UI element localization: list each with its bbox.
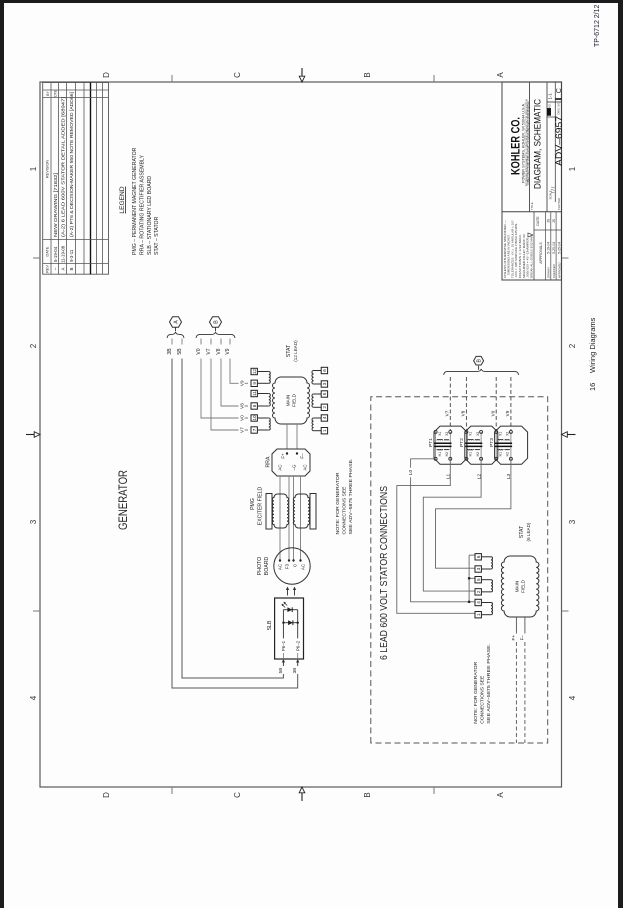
svg-text:9: 9 [252, 382, 257, 385]
stator coil 3-6 (6-lead) [491, 557, 493, 569]
svg-text:DTE: DTE [54, 89, 58, 97]
svg-text:F–: F– [299, 453, 304, 459]
svg-text:GENERATOR: GENERATOR [116, 470, 130, 530]
black size box [547, 108, 551, 116]
svg-text:PMG – PERMANENT MAGNET GENERAT: PMG – PERMANENT MAGNET GENERATOR [132, 147, 138, 255]
terminal 3 [321, 381, 327, 387]
svg-text:4: 4 [29, 695, 38, 700]
svg-text:EXCITER FIELD: EXCITER FIELD [258, 486, 264, 525]
svg-text:AC: AC [278, 564, 283, 570]
svg-text:PLOTTED: PLOTTED [557, 198, 561, 210]
svg-text:REV: REV [46, 265, 50, 273]
terminal 12 [251, 368, 257, 374]
svg-text:1: 1 [568, 166, 577, 171]
transformer PT1 [434, 426, 467, 464]
RRA F- terminal [296, 452, 298, 454]
centering mark bottom edge [567, 434, 576, 436]
RRA box [272, 449, 310, 476]
brace 6-lead [444, 369, 519, 375]
terminal 11 [251, 390, 257, 396]
svg-text:PT2: PT2 [459, 438, 465, 447]
node B right [474, 356, 484, 365]
wire V9 run [230, 359, 248, 384]
svg-text:6: 6 [322, 369, 327, 372]
svg-text:(A-2) 6 LEAD 600V STATOR DETAI: (A-2) 6 LEAD 600V STATOR DETAIL ADDED [6… [61, 97, 66, 237]
svg-text:C: C [233, 792, 242, 798]
svg-text:DATE: DATE [536, 216, 540, 226]
svg-text:F3: F3 [284, 563, 289, 569]
svg-text:DWG. NO.: DWG. NO. [556, 102, 560, 115]
wire V8 stub/label [220, 339, 222, 345]
svg-text:5-25-04: 5-25-04 [552, 242, 556, 254]
terminal 4 (6-lead) [475, 599, 481, 605]
svg-text:SEE ADV–5875 THREE PHASE.: SEE ADV–5875 THREE PHASE. [486, 644, 492, 724]
scan edge strip right [618, 0, 623, 908]
svg-text:STAT: STAT [286, 344, 292, 357]
svg-text:X1: X1 [498, 432, 502, 436]
svg-text:H2: H2 [506, 452, 510, 456]
svg-text:SEE ADV–5875 THREE PHASE.: SEE ADV–5875 THREE PHASE. [348, 459, 354, 535]
svg-text:V7: V7 [445, 410, 450, 416]
svg-text:AC: AC [303, 464, 308, 470]
svg-text:L1: L1 [446, 474, 452, 480]
svg-text:C: C [556, 88, 563, 93]
PMG exciter coil upper [272, 494, 288, 528]
svg-text:MAIN: MAIN [515, 581, 520, 592]
svg-text:REVISION: REVISION [46, 160, 50, 178]
svg-text:5-19-04: 5-19-04 [547, 242, 551, 254]
stator coil 1-4 (6-lead) [491, 603, 493, 615]
wire F3 [288, 476, 290, 561]
wire V9 stub/label [229, 339, 231, 345]
svg-text:ADV–6957: ADV–6957 [554, 116, 565, 166]
svg-text:A: A [496, 72, 505, 78]
svg-text:B: B [213, 320, 219, 324]
main field 12-lead [273, 377, 310, 424]
svg-text:CONNECTIONS SEE: CONNECTIONS SEE [480, 676, 486, 724]
svg-text:5B: 5B [278, 668, 283, 674]
svg-text:5-19-04: 5-19-04 [53, 246, 58, 262]
svg-text:3: 3 [29, 519, 38, 524]
svg-text:3: 3 [322, 382, 327, 385]
photo board circle [274, 548, 310, 584]
svg-text:V0: V0 [196, 348, 202, 354]
wire L1 [397, 459, 475, 614]
terminal 1 (6-lead) [475, 612, 481, 618]
svg-text:AC: AC [278, 464, 283, 470]
junction L0/bus [468, 601, 471, 604]
svg-text:1: 1 [476, 613, 481, 616]
main field 6-lead [501, 556, 539, 617]
6-lead stator coils [481, 614, 491, 616]
svg-text:A: A [61, 267, 66, 270]
svg-text:B: B [69, 267, 74, 270]
svg-text:H2: H2 [445, 452, 449, 456]
svg-text:PMG: PMG [250, 498, 256, 510]
12-lead stator upper winding stubs and coils [257, 429, 268, 431]
svg-text:BY: BY [46, 91, 50, 96]
node A [170, 317, 182, 327]
svg-text:STAT: STAT [519, 525, 525, 538]
terminal 7 [251, 427, 257, 433]
SLB LED branch [283, 609, 297, 611]
svg-text:PT1: PT1 [428, 438, 434, 447]
neutral bus L0 to terminals 6,5,4 [468, 555, 470, 602]
svg-text:4: 4 [568, 695, 577, 700]
arrow to photo board 1 [286, 587, 289, 596]
svg-text:AC: AC [300, 564, 305, 570]
diode [288, 620, 293, 625]
svg-text:6 LEAD 600 VOLT STATOR CONNECT: 6 LEAD 600 VOLT STATOR CONNECTIONS [379, 486, 390, 660]
PMG magnet bar lower [310, 494, 316, 530]
svg-text:POWER SYSTEMS, KOHLER, WI 530: POWER SYSTEMS, KOHLER, WI 53044 U.S.A. [522, 103, 526, 183]
dashed wire V8 [465, 377, 467, 430]
wire L3 [436, 459, 511, 568]
svg-text:–: – [53, 267, 58, 270]
node B [210, 317, 222, 327]
svg-text:X2: X2 [445, 432, 449, 436]
svg-text:BOARD: BOARD [264, 557, 270, 576]
svg-text:V8: V8 [240, 403, 245, 409]
F- dashed [524, 617, 526, 634]
V7 label at terminal 7 [239, 425, 245, 434]
svg-text:8: 8 [252, 404, 257, 407]
dashed wire V7 [449, 377, 451, 430]
svg-text:RRA – ROTATING RECTIFIER ASSEM: RRA – ROTATING RECTIFIER ASSEMBLY [139, 154, 145, 255]
svg-text:Wiring Diagrams: Wiring Diagrams [588, 317, 597, 373]
wire V8 run [221, 359, 248, 407]
svg-text:V7: V7 [240, 427, 245, 433]
svg-text:11-19-08: 11-19-08 [61, 245, 66, 263]
stator coil 2-5 (6-lead) [491, 580, 493, 592]
F+ dashed [515, 617, 517, 634]
terminal 5 (6-lead) [475, 577, 481, 583]
stator coil 3-6 [312, 371, 314, 385]
scan edge strip top [0, 0, 623, 3]
svg-text:TITLE: TITLE [530, 202, 534, 210]
svg-text:F+: F+ [511, 635, 516, 641]
svg-text:H1: H1 [438, 452, 442, 456]
svg-text:MAIN: MAIN [286, 395, 291, 406]
svg-text:6: 6 [476, 555, 481, 558]
wire V7 run [211, 359, 248, 431]
svg-text:5: 5 [476, 578, 481, 581]
svg-text:V9: V9 [505, 410, 510, 416]
svg-text:P6–2: P6–2 [296, 640, 301, 651]
wire 0 [293, 476, 295, 561]
terminal 8 [251, 403, 257, 409]
wire 3B run [172, 359, 298, 689]
svg-text:12: 12 [252, 369, 257, 375]
PMG exciter coil lower [293, 494, 309, 528]
svg-text:STAT – STATOR: STAT – STATOR [154, 216, 160, 255]
terminal 10 [251, 415, 257, 421]
V8 label at terminal 8 [239, 401, 245, 410]
svg-text:DIAGRAM, SCHEMATIC: DIAGRAM, SCHEMATIC [532, 98, 542, 189]
centering mark top edge [26, 434, 35, 436]
transformer PT3 [495, 426, 528, 464]
wire AC lower [300, 476, 302, 561]
wire 5B stub/label [181, 339, 183, 345]
svg-text:FIELD: FIELD [521, 579, 526, 593]
terminal 9 [251, 380, 257, 386]
svg-text:V9: V9 [240, 380, 245, 386]
svg-text:2: 2 [568, 343, 577, 348]
title block outer [502, 82, 562, 280]
svg-text:5: 5 [322, 392, 327, 395]
wire L0 [411, 459, 470, 602]
svg-text:5B: 5B [177, 348, 183, 355]
arrow to photo board 2 [293, 587, 296, 596]
svg-text:0: 0 [292, 564, 297, 567]
svg-text:F–: F– [520, 635, 525, 641]
terminal 5 [321, 391, 327, 397]
svg-text:F+: F+ [280, 453, 285, 459]
svg-text:A: A [496, 792, 505, 798]
revision table [43, 83, 109, 275]
brace B [196, 332, 235, 338]
drawing border frame [40, 82, 562, 787]
LED arrows [282, 605, 285, 608]
V0 label at terminal 10 [239, 413, 245, 422]
svg-text:NOTE: FOR GENERATOR: NOTE: FOR GENERATOR [335, 472, 341, 535]
svg-text:V8: V8 [216, 348, 222, 354]
terminal 4 [321, 415, 327, 421]
svg-text:4: 4 [476, 601, 481, 604]
svg-text:(6 LEAD): (6 LEAD) [526, 522, 531, 541]
svg-text:2: 2 [476, 590, 481, 593]
6-lead dashed enclosure [371, 397, 548, 743]
svg-text:JS: JS [552, 218, 556, 223]
SLB diode branch [283, 622, 297, 624]
stator coil 1-4 [312, 418, 314, 431]
terminal 6 [321, 367, 327, 373]
svg-text:CONNECTION WITH OUR WORK. ALL: CONNECTION WITH OUR WORK. ALL RIGHTS OF … [527, 101, 530, 185]
svg-text:1: 1 [29, 166, 38, 171]
LED diode [287, 607, 292, 612]
wire V0 run [201, 359, 248, 419]
approvals table [534, 229, 562, 231]
svg-text:A: A [173, 320, 179, 324]
svg-text:V9: V9 [225, 348, 231, 354]
svg-text:JS: JS [547, 218, 551, 223]
svg-text:16: 16 [588, 383, 597, 391]
terminal 1 [321, 428, 327, 434]
svg-text:P6–1: P6–1 [281, 640, 286, 651]
SLB stationary LED board [275, 598, 304, 659]
stator coil 9-12 [269, 371, 270, 383]
V9 label at terminal 9 [239, 379, 245, 388]
title block divisions [502, 211, 562, 213]
svg-text:2: 2 [322, 406, 327, 409]
svg-text:3B: 3B [292, 668, 297, 674]
12-lead stator lower coils [314, 430, 322, 432]
svg-text:H1: H1 [498, 452, 502, 456]
svg-text:10: 10 [252, 415, 257, 421]
centering mark right edge [301, 68, 303, 77]
svg-text:3B: 3B [167, 348, 173, 355]
SLB internal wires [282, 653, 284, 659]
svg-text:B: B [477, 358, 483, 362]
svg-text:1-1: 1-1 [548, 93, 553, 100]
svg-text:D: D [102, 72, 111, 78]
terminal 2 (6-lead) [475, 589, 481, 595]
scan edge strip left [0, 0, 4, 908]
svg-text:4: 4 [322, 416, 327, 419]
terminal 2 [321, 404, 327, 410]
stator coil 2-5 [312, 394, 314, 407]
stator coil 8-11 [269, 394, 271, 407]
svg-text:7: 7 [252, 428, 257, 431]
svg-text:L2: L2 [476, 474, 482, 480]
photo board terminal dots [279, 559, 281, 561]
svg-text:B: B [363, 72, 372, 77]
svg-text:H2: H2 [476, 452, 480, 456]
svg-text:–G: –G [292, 464, 297, 470]
svg-text:11: 11 [252, 391, 257, 396]
svg-text:FIELD: FIELD [292, 393, 297, 407]
wire 5B run [182, 359, 283, 679]
svg-text:X1: X1 [469, 432, 473, 436]
svg-text:B: B [363, 792, 372, 797]
PMG magnet bar upper [266, 494, 272, 530]
svg-text:V0: V0 [240, 415, 245, 421]
svg-text:BREAK ALL EDGES 1/32 MAX.: BREAK ALL EDGES 1/32 MAX. [529, 234, 533, 278]
svg-text:DATE: DATE [46, 246, 50, 256]
svg-text:NOTE: FOR GENERATOR: NOTE: FOR GENERATOR [473, 661, 479, 724]
svg-text:(A-2) PT6 & DECISION-MAKER 550: (A-2) PT6 & DECISION-MAKER 550 NOTE REMO… [69, 92, 74, 237]
svg-text:DRAWN: DRAWN [547, 268, 551, 278]
brace A [167, 332, 184, 338]
svg-text:3: 3 [476, 567, 481, 570]
wire V0 stub/label [200, 339, 202, 345]
svg-text:5-25-04: 5-25-04 [557, 242, 561, 254]
wire V7 stub/label [210, 339, 212, 345]
RRA F+ terminal [286, 452, 288, 454]
centering mark left edge [301, 793, 303, 802]
svg-text:LEGEND: LEGEND [119, 186, 126, 213]
svg-text:L0: L0 [408, 470, 414, 476]
wire AC upper [279, 476, 281, 561]
svg-text:V8: V8 [461, 410, 466, 416]
svg-text:1: 1 [322, 429, 327, 432]
junction bus/5 [468, 577, 471, 580]
svg-text:/ / /: / / / [550, 186, 555, 193]
svg-text:D: D [102, 792, 111, 798]
terminal 6 (6-lead) [475, 554, 481, 560]
svg-text:X1: X1 [438, 432, 442, 436]
svg-text:X2: X2 [506, 432, 510, 436]
svg-text:APPROVALS: APPROVALS [539, 242, 543, 264]
wire 3B stub/label [171, 339, 173, 345]
terminal 3 (6-lead) [475, 566, 481, 572]
svg-text:C: C [233, 72, 242, 78]
svg-text:APPROVED: APPROVED [557, 262, 561, 278]
svg-text:X2: X2 [476, 432, 480, 436]
main field leads to RRA [286, 424, 288, 449]
zone tick marks [33, 610, 40, 612]
svg-text:NEW DRAWING [71832]: NEW DRAWING [71832] [53, 173, 58, 237]
svg-text:V0: V0 [490, 410, 495, 416]
svg-text:3: 3 [568, 519, 577, 524]
svg-text:TP-6712 2/12: TP-6712 2/12 [594, 4, 601, 47]
svg-text:(12 LEAD): (12 LEAD) [293, 340, 298, 362]
stator coil 7-10 [269, 418, 271, 430]
transformer PT2 [465, 426, 498, 464]
svg-text:9-3-11: 9-3-11 [69, 249, 74, 262]
svg-text:CHECKED: CHECKED [552, 264, 556, 278]
dashed wire V9 [510, 377, 512, 430]
svg-text:RRA: RRA [266, 456, 272, 467]
svg-text:2: 2 [29, 343, 38, 348]
wire L2 [423, 459, 481, 591]
svg-text:PHOTO: PHOTO [257, 557, 263, 575]
svg-text:SLB: SLB [267, 620, 273, 630]
dashed wire V0 [495, 377, 497, 430]
svg-text:CONNECTIONS SEE: CONNECTIONS SEE [342, 487, 348, 535]
svg-text:L3: L3 [506, 474, 512, 480]
svg-text:PT3: PT3 [489, 438, 495, 447]
svg-text:V7: V7 [206, 348, 212, 354]
svg-text:H1: H1 [469, 452, 473, 456]
svg-text:SLB – STATIONARY LED BOARD: SLB – STATIONARY LED BOARD [147, 176, 153, 255]
